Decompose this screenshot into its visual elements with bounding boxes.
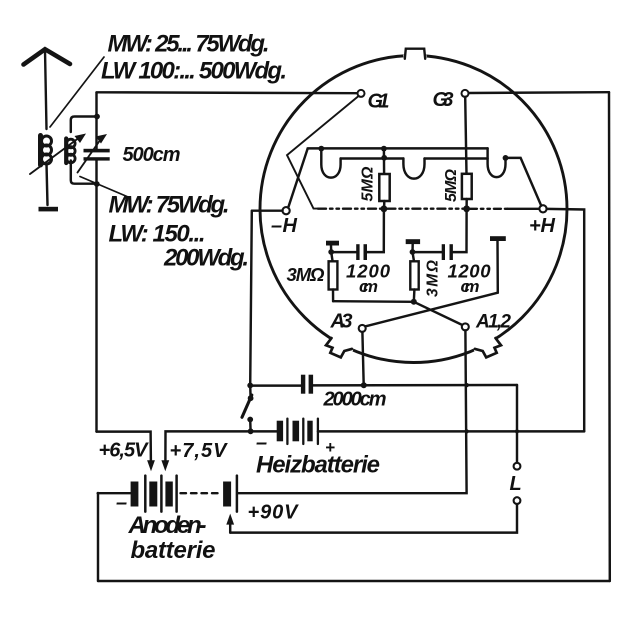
wire to C4 <box>250 384 301 386</box>
wire A3 terminal down <box>362 332 363 385</box>
terminal G3 <box>462 90 469 97</box>
wire anode3 stem <box>496 241 499 293</box>
wire L jack bottom <box>230 504 517 533</box>
tube top key tab <box>405 49 425 59</box>
svg-text:–: – <box>116 492 127 514</box>
terminal A3 <box>359 325 366 332</box>
resistor R2 5MΩ grid leak <box>462 174 472 209</box>
node switch top <box>247 383 253 389</box>
wire left main vertical <box>95 93 97 432</box>
wire junction to terminal A1,2 <box>414 302 463 325</box>
wire grid3 to +H terminal <box>508 208 540 210</box>
node grid1-leak junction <box>381 205 388 212</box>
arrow +90V tap tip <box>226 514 234 525</box>
node filament R1 tap <box>381 146 387 152</box>
node crossing A12 blob <box>465 383 469 387</box>
wire -H to left <box>252 209 283 211</box>
svg-text:+7,5V: +7,5V <box>170 440 229 462</box>
wire to C3 <box>413 251 442 253</box>
wire -H down to switch <box>250 211 252 386</box>
wire bottom left frame <box>97 493 99 581</box>
wire A1,2 down to +90V <box>237 330 466 493</box>
wire R3 to A12 node <box>333 300 414 303</box>
node grid2-leak junction <box>463 205 470 212</box>
wire bottom frame <box>98 580 610 582</box>
tube bottom right bayonet tab <box>475 338 501 357</box>
antenna <box>24 49 71 129</box>
tube bottom left bayonet tab <box>326 338 352 357</box>
wire anode1 stem <box>330 246 333 253</box>
svg-text:2000cm: 2000cm <box>323 389 387 411</box>
resistor R1 5MΩ grid leak <box>379 149 389 209</box>
wire tank bottom <box>71 161 97 184</box>
wire filament to +H <box>506 158 542 206</box>
wire anode3 to terminal A3 <box>366 293 498 327</box>
svg-text:LW: 150...: LW: 150... <box>109 221 206 248</box>
wire tank top <box>71 117 97 133</box>
wire C2 to grid1 junction <box>367 209 384 252</box>
wire top to G1 <box>97 91 358 94</box>
filament loop 2 <box>403 159 424 179</box>
coupling arrow through coils <box>30 134 86 175</box>
wire C3 to grid2 junction <box>453 209 467 252</box>
capacitor C4 2000cm <box>301 375 313 394</box>
svg-text:+6,5V: +6,5V <box>99 440 150 462</box>
node anode1 junction <box>328 249 334 255</box>
anode A2 plate bar <box>406 239 420 244</box>
wire riser to +H <box>547 209 585 432</box>
filament top bus <box>308 147 488 149</box>
wire +90V arrow stem <box>229 522 231 533</box>
node anode2 junction <box>410 249 416 255</box>
capacitor C3 1200cm <box>442 244 453 260</box>
filament loop 3 <box>488 148 506 177</box>
svg-text:MW: 25... 75Wdg.: MW: 25... 75Wdg. <box>108 31 270 58</box>
node A12 wire junction <box>411 299 417 305</box>
svg-text:3MΩ: 3MΩ <box>287 264 326 285</box>
node crossing A12 blob2 <box>465 429 469 433</box>
switch S1 <box>242 385 254 434</box>
svg-text:3MΩ: 3MΩ <box>425 260 442 297</box>
node filament loop 1 <box>318 146 324 152</box>
svg-text:A3: A3 <box>330 311 353 333</box>
filament mid wire <box>341 157 404 159</box>
wire to anode battery minus <box>98 492 131 494</box>
svg-text:–H: –H <box>271 215 298 237</box>
svg-text:200Wdg.: 200Wdg. <box>163 245 249 272</box>
node filament right <box>503 155 509 161</box>
wire G3 lead down <box>465 97 466 174</box>
terminal G1 <box>358 90 365 97</box>
terminal -H <box>283 207 290 214</box>
PLACEHOLDER-BOTTOM2 <box>99 31 556 565</box>
wire coil to ground bar <box>47 164 48 205</box>
svg-text:5MΩ: 5MΩ <box>360 166 377 202</box>
anode A1 plate bar <box>326 241 339 246</box>
arrow +7.5V tap tip <box>161 460 169 471</box>
svg-text:cm: cm <box>359 277 378 296</box>
filament loop 1 <box>321 149 340 178</box>
wire C4 to L corner <box>313 384 517 387</box>
terminal L upper <box>514 463 521 470</box>
wire G3 to top right corner <box>469 91 610 94</box>
svg-text:+H: +H <box>529 215 556 237</box>
wire anode2 stem <box>411 244 414 252</box>
wire label pointer to grid winding text <box>80 177 127 197</box>
svg-text:Heizbatterie: Heizbatterie <box>256 452 380 479</box>
capacitor C1 500cm variable <box>78 134 110 173</box>
grid G1 dashed electrode <box>318 207 381 209</box>
node crossing L blob <box>515 429 519 433</box>
grid G2 dashed electrode <box>387 207 463 209</box>
battery B1 Heizbatterie <box>251 419 318 444</box>
node A3 wire joins <box>361 382 367 388</box>
wire L jack top <box>516 385 518 463</box>
wire label pointer to antenna winding text <box>50 57 104 127</box>
node tank top <box>94 114 100 120</box>
svg-text:G1: G1 <box>368 91 390 113</box>
node tank bottom <box>94 181 100 187</box>
PLACEHOLDER-TUBE2 <box>97 209 585 533</box>
anode A3 plate bar <box>490 236 506 241</box>
filament mid wire 2 <box>425 157 488 159</box>
grid G3 dashed electrode <box>470 208 508 210</box>
wire +7.5V tap <box>165 431 250 462</box>
node filament R1 tap lower <box>381 155 387 161</box>
wire right frame <box>608 92 611 581</box>
capacitor C2 1200cm <box>356 244 367 260</box>
coil L2 grid winding <box>66 139 75 164</box>
wire to C2 <box>331 251 356 253</box>
terminal A1,2 <box>462 323 469 330</box>
ground <box>39 207 59 212</box>
svg-text:500cm: 500cm <box>123 144 181 166</box>
svg-text:+90V: +90V <box>248 502 300 524</box>
svg-text:G3: G3 <box>433 89 454 111</box>
resistor R3 3MΩ <box>329 252 338 301</box>
terminal +H <box>539 205 546 212</box>
svg-text:A1,2: A1,2 <box>475 312 511 333</box>
svg-text:Anoden-: Anoden- <box>128 512 207 539</box>
svg-text:batterie: batterie <box>131 537 216 564</box>
svg-text:MW: 75Wdg.: MW: 75Wdg. <box>109 192 230 219</box>
svg-text:cm: cm <box>461 277 480 296</box>
svg-text:L: L <box>510 473 522 495</box>
terminal L lower <box>514 497 521 504</box>
svg-text:LW 100:... 500Wdg.: LW 100:... 500Wdg. <box>101 58 287 85</box>
arrow +6.5V tap tip <box>147 460 155 471</box>
wire -H to filament <box>288 149 307 208</box>
resistor R4 3MΩ <box>410 252 418 302</box>
battery B2 Anodenbatterie <box>131 476 237 512</box>
svg-text:5MΩ: 5MΩ <box>443 169 460 203</box>
coil L1 antenna winding <box>41 136 52 166</box>
wire G1 to grid 1 <box>287 96 359 209</box>
wire B1 plus to +H riser <box>318 430 584 432</box>
tube 3NF envelope <box>260 56 567 363</box>
wire +6.5V tap <box>97 432 151 462</box>
